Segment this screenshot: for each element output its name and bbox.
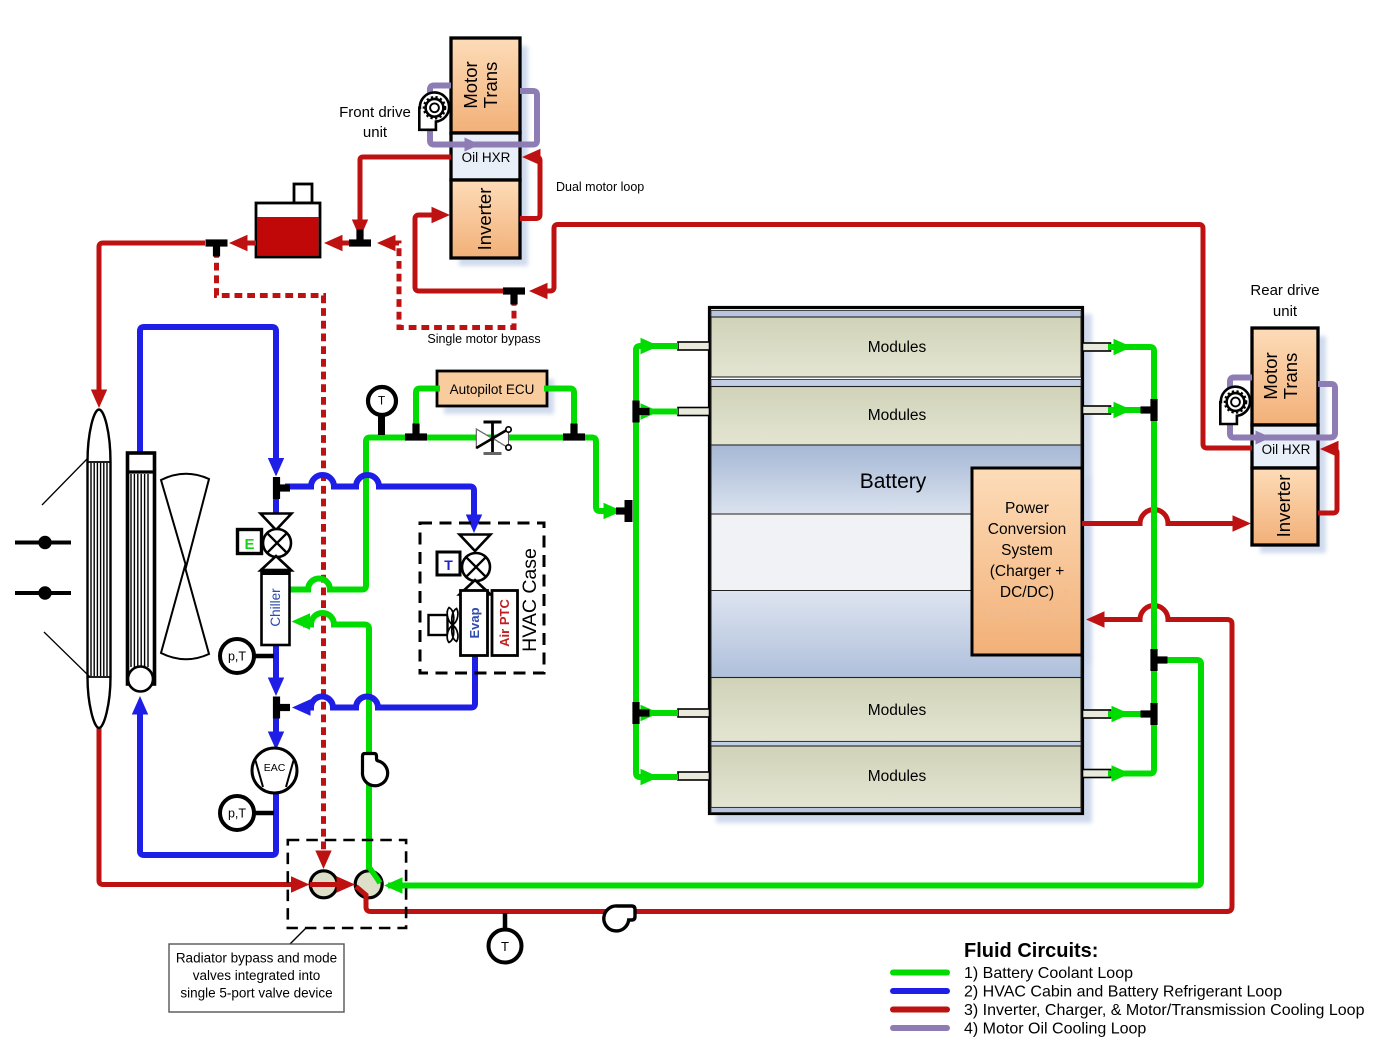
svg-text:Oil HXR: Oil HXR <box>462 150 511 165</box>
air flow arrow 2 <box>15 591 71 595</box>
tee junction: battery right collector row2 <box>1150 399 1157 421</box>
arrow green from battery right stub 2 <box>1114 402 1133 418</box>
front drive unit Oil HXR box <box>451 133 520 180</box>
wire green: main battery supply line through valve <box>410 435 578 441</box>
condenser receiver drier circle <box>128 667 153 692</box>
wire red: front tee to front inverter inlet <box>415 215 506 291</box>
wire red dashed: radiator bypass from left tee to 5-port circle 1 <box>217 250 324 852</box>
svg-text:Trans: Trans <box>480 62 501 109</box>
battery right stub port 2 <box>1083 406 1111 414</box>
arrow red into front inverter inlet <box>432 207 451 223</box>
battery left stub port 1 <box>678 342 710 350</box>
arrow red into rear Oil HXR right <box>1320 441 1339 457</box>
svg-text:Battery: Battery <box>860 470 927 493</box>
arrow green from battery right stub 4 <box>1112 765 1131 781</box>
battery left stub port 4 <box>678 772 710 780</box>
arrow green from battery right stub 1 <box>1114 339 1133 355</box>
svg-text:Dual motor loop: Dual motor loop <box>556 180 644 194</box>
arrow blue up into condenser bottom <box>132 696 148 715</box>
wire blue: EAC outlet to condenser bottom <box>140 713 276 855</box>
arrow purple rear oil loop flow <box>1256 431 1272 445</box>
wire green: battery return from right collector tee to 5-port circle 2 <box>388 660 1201 886</box>
svg-text:Rear drive: Rear drive <box>1250 282 1319 299</box>
tee junction: battery left collector row3 <box>632 702 639 724</box>
svg-text:(Aux Heater): (Aux Heater) <box>983 605 1071 622</box>
HVAC TXV valve bottom triangle <box>460 580 491 595</box>
wire green: chiller outlet up to main battery supply line <box>289 438 410 590</box>
svg-text:Front drive: Front drive <box>339 104 411 121</box>
arrow red down into reservoir tee <box>352 220 368 239</box>
svg-text:System: System <box>1001 542 1053 559</box>
wire blue: condenser top to chiller tee <box>140 327 276 464</box>
T sensor box in HVAC case <box>437 552 460 575</box>
svg-text:unit: unit <box>1273 303 1298 320</box>
shadow of front drive unit <box>459 46 528 266</box>
arrow red into PCS return port <box>1086 611 1105 627</box>
tee junction: battery right collector return takeoff <box>1150 649 1157 671</box>
coolant pump on PT loop red line <box>604 906 635 931</box>
5-port valve port circle 1 (radiator bypass valve) <box>310 871 337 898</box>
svg-text:Chiller: Chiller <box>268 588 283 627</box>
front drive unit Inverter box <box>451 180 520 258</box>
battery left stub port 2 <box>678 408 710 416</box>
battery loop control valve on main green line <box>476 429 492 448</box>
wire green: battery right branch row 3 <box>1108 711 1149 717</box>
5-port valve port circle 2 (mode valve) <box>355 871 382 898</box>
radiator core fins <box>90 463 92 676</box>
arrow red into radiator inlet <box>91 390 107 409</box>
svg-text:Autopilot ECU: Autopilot ECU <box>450 382 535 397</box>
arrow blue down into lower tee <box>268 678 284 697</box>
svg-text:Modules: Modules <box>868 407 927 424</box>
svg-text:Motor: Motor <box>1260 352 1281 399</box>
rear drive unit Motor/Trans box <box>1252 328 1318 425</box>
wire green: battery right branch row 2 <box>1108 407 1149 413</box>
battery modules band 3 <box>711 678 1081 742</box>
svg-text:3) Inverter, Charger, & Motor/: 3) Inverter, Charger, & Motor/Transmissi… <box>964 1002 1365 1019</box>
rear drive unit Inverter box <box>1252 468 1318 545</box>
svg-text:T: T <box>378 394 386 408</box>
battery left stub port 3 <box>678 709 710 717</box>
svg-text:+: + <box>1061 584 1070 601</box>
arrow green into chiller coolant inlet <box>292 613 311 629</box>
arrow red dashed into reservoir tee (single motor bypass) <box>377 235 396 251</box>
svg-text:Inverter: Inverter <box>1273 475 1294 538</box>
svg-text:(Charger +: (Charger + <box>990 563 1065 580</box>
arrow blue into lower tee from HVAC return <box>292 699 311 715</box>
svg-text:T: T <box>501 939 509 954</box>
arrow green into battery left stub 3 <box>641 705 660 721</box>
svg-text:Modules: Modules <box>868 339 927 356</box>
p,T sensor at EAC outlet <box>253 811 274 816</box>
battery blue band (Battery label) <box>711 445 1081 514</box>
svg-text:HVAC Case: HVAC Case <box>519 548 541 652</box>
svg-text:Air PTC: Air PTC <box>497 599 512 647</box>
coolant reservoir body <box>256 203 320 257</box>
leader line upper to radiator <box>42 459 87 505</box>
chiller expansion valve top triangle <box>261 514 292 531</box>
wire red: reservoir outlet to left tee <box>245 241 256 246</box>
coolant reservoir fluid fill <box>258 217 319 256</box>
cooling fan blade bottom <box>161 567 209 660</box>
svg-text:Power: Power <box>1005 500 1049 517</box>
wire green: battery left branch row 3 <box>642 710 678 716</box>
HVAC blower fan blades <box>447 608 458 626</box>
rear oil pump (gear pump) <box>1220 387 1250 424</box>
svg-text:Motor: Motor <box>460 61 481 108</box>
condenser fins <box>130 474 132 667</box>
shadow of rear drive unit <box>1260 336 1326 553</box>
callout leader line <box>289 928 306 945</box>
arrow green from battery right stub 3 <box>1112 706 1131 722</box>
svg-text:Trans: Trans <box>1280 353 1301 400</box>
tee junction: single motor bypass takeoff <box>503 287 525 294</box>
wire blue: HVAC evaporator supply from chiller tee <box>285 475 474 521</box>
arrow green into battery left stub 1 <box>641 338 660 354</box>
chiller expansion valve bottom triangle <box>261 556 292 571</box>
arrow blue down into HVAC TXV valve <box>466 515 482 534</box>
battery bottom thin blue strip <box>711 808 1081 813</box>
arrow green into 5-port circle 2 from battery return <box>384 877 403 893</box>
wire red: front inverter to front Oil HXR loop <box>520 157 540 219</box>
power conversion system box <box>972 468 1082 655</box>
arrow red into front Oil HXR right <box>522 149 541 165</box>
svg-text:unit: unit <box>363 124 388 141</box>
HVAC TXV valve circle <box>462 553 490 581</box>
chiller expansion valve circle <box>263 529 291 557</box>
svg-text:DC/DC): DC/DC) <box>1000 584 1054 601</box>
svg-text:Fluid Circuits:: Fluid Circuits: <box>964 940 1098 962</box>
arrow blue down into EAC compressor <box>268 732 284 751</box>
arrow red into 5-port circle 1 <box>291 876 310 892</box>
arrow red into left tee from reservoir <box>229 235 248 251</box>
wire red dashed: single motor bypass from tee to reservoir tee <box>390 243 514 328</box>
svg-text:p,T: p,T <box>228 807 246 821</box>
wire red: radiator outlet to 5-port valve circle 1 <box>99 727 302 885</box>
svg-text:Evap: Evap <box>467 607 482 638</box>
wire blue: lower tee to EAC inlet <box>273 716 279 737</box>
E solenoid box <box>238 530 262 554</box>
battery right stub port 1 <box>1083 343 1111 351</box>
tee junction: battery left collector row2 <box>632 401 639 423</box>
svg-text:Modules: Modules <box>868 768 927 785</box>
wire blue: HVAC evaporator return to lower tee <box>304 655 475 708</box>
coolant pump on battery loop green line <box>362 754 387 786</box>
T sensor on main green line <box>378 413 385 435</box>
svg-text:2) HVAC Cabin and Battery Refr: 2) HVAC Cabin and Battery Refrigerant Lo… <box>964 984 1282 1001</box>
HVAC TXV valve top triangle <box>460 535 491 552</box>
cooling fan blade top <box>161 474 209 567</box>
arrow red into 5-port circle 2 <box>337 876 356 892</box>
battery pack outer box <box>710 308 1083 814</box>
legend swatch purple <box>893 1025 947 1031</box>
wire red: rear inverter to rear Oil HXR loop <box>1318 449 1337 513</box>
svg-text:4) Motor Oil Cooling Loop: 4) Motor Oil Cooling Loop <box>964 1021 1146 1038</box>
tee junction: radiator bypass takeoff <box>206 239 228 246</box>
condenser header line <box>128 470 155 473</box>
rear drive unit Oil HXR box <box>1252 425 1318 468</box>
air PTC heater box <box>492 591 518 656</box>
battery thin blue strip 3 <box>711 742 1081 747</box>
arrow purple front oil loop flow <box>465 138 481 152</box>
wire purple: rear motor oil cooling loop <box>1230 378 1335 438</box>
wire red: reservoir tee to reservoir inlet <box>338 241 352 246</box>
svg-text:Inverter: Inverter <box>474 188 495 251</box>
tee junction: EAC refrigerant tee <box>273 697 280 719</box>
wire green: elbow at 5-port circle 2 top <box>369 867 380 883</box>
wire red: left tee to radiator inlet <box>99 243 205 399</box>
tee junction: ECU right tap on main green line <box>563 433 585 440</box>
wire red: PCS outlet to rear inverter <box>1082 510 1240 524</box>
legend swatch green <box>893 970 947 976</box>
battery modules band 4 <box>711 746 1081 808</box>
svg-text:Radiator bypass and mode: Radiator bypass and mode <box>176 951 337 966</box>
radiator core top line <box>88 461 111 463</box>
battery white band <box>711 514 1081 591</box>
svg-text:T: T <box>444 557 453 573</box>
air flow arrow 1 <box>15 541 71 545</box>
battery modules band 2 <box>711 387 1081 446</box>
Autopilot ECU box <box>437 371 547 406</box>
EAC compressor <box>252 748 297 793</box>
wire green: battery left branch row 2 <box>642 409 678 415</box>
arrow red into reservoir inlet <box>324 235 343 251</box>
radiator (low temp) body <box>88 410 111 729</box>
svg-text:Single motor bypass: Single motor bypass <box>427 332 540 346</box>
HVAC blower fan motor box <box>429 615 448 635</box>
wire green: 5-port circle 2 up to chiller inlet <box>303 613 369 869</box>
wire green: battery right collector with stub branches <box>1108 347 1154 774</box>
front oil pump (gear pump) <box>419 92 449 129</box>
arrow green into battery left stub 2 <box>641 403 660 419</box>
arrow green into battery left stub 4 <box>641 769 660 785</box>
wire purple: front motor oil cooling loop <box>430 86 537 145</box>
shadow of battery pack box <box>716 314 1092 823</box>
wire red: front Oil HXR left outlet to reservoir tee <box>360 157 451 229</box>
radiator core bottom line <box>88 676 111 678</box>
tee junction: ECU left tap on main green line <box>405 433 427 440</box>
arrow green into battery left collector tee <box>604 503 623 519</box>
arrow red into front tee from rear return <box>529 283 548 299</box>
wire green: battery left collector with top and bottom branches <box>636 346 678 777</box>
condenser body <box>128 453 155 684</box>
svg-text:Conversion: Conversion <box>988 521 1066 538</box>
wire green: main supply to battery left collector tee <box>578 438 621 512</box>
arrow red dashed into 5-port circle 1 top (radiator bypass) <box>315 851 331 870</box>
tee junction: chiller refrigerant tee <box>273 477 280 499</box>
svg-text:Oil HXR: Oil HXR <box>1262 442 1311 457</box>
evaporator box <box>461 591 488 656</box>
HVAC case dashed enclosure <box>420 523 544 673</box>
svg-text:single 5-port valve device: single 5-port valve device <box>180 986 332 1001</box>
5-port valve dashed enclosure <box>288 840 406 928</box>
legend swatch red <box>893 1007 947 1013</box>
T sensor on bottom red line <box>503 913 508 931</box>
battery right stub port 4 <box>1083 770 1111 778</box>
arrow red into rear inverter inlet <box>1233 515 1252 531</box>
legend swatch blue <box>893 988 947 994</box>
p,T sensor at chiller outlet <box>253 654 274 659</box>
front drive unit Motor/Trans box <box>451 38 520 133</box>
svg-text:1) Battery Coolant Loop: 1) Battery Coolant Loop <box>964 965 1133 982</box>
coolant reservoir filler neck <box>294 184 312 203</box>
svg-text:E: E <box>244 536 254 553</box>
battery modules band 1 <box>711 317 1081 377</box>
shadow of power conversion system box <box>980 476 1090 664</box>
wire green: Autopilot ECU right branch <box>544 389 574 431</box>
leader line lower to radiator <box>44 632 90 677</box>
wire red: through 5-port circle 1 toward circle 2 <box>310 882 348 887</box>
battery top thin blue strip <box>711 311 1081 318</box>
tee junction: battery left collector feed <box>625 500 633 522</box>
battery thin blue strip 2 <box>711 380 1081 387</box>
tee junction: battery right collector row3 <box>1150 703 1157 725</box>
shadow of Autopilot ECU box <box>444 379 554 414</box>
arrow blue down into chiller tee <box>268 458 284 477</box>
callout box: radiator bypass note <box>169 944 344 1012</box>
battery blue band 2 <box>711 591 1081 678</box>
wire green: Autopilot ECU left branch <box>416 389 440 431</box>
tee junction: reservoir inlet tee <box>349 239 371 246</box>
svg-text:EAC: EAC <box>264 762 286 774</box>
wire blue: chiller tee through chiller string <box>273 496 279 684</box>
wire red: rear Oil HXR outlet long return to front unit tee <box>541 225 1252 449</box>
svg-text:p,T: p,T <box>228 650 246 664</box>
svg-text:valves integrated into: valves integrated into <box>193 968 321 983</box>
wire red: 5-port valve outlet bottom line up to PCS return <box>356 606 1232 912</box>
svg-text:Modules: Modules <box>868 702 927 719</box>
chiller body <box>262 570 290 645</box>
battery right stub port 3 <box>1083 710 1111 718</box>
